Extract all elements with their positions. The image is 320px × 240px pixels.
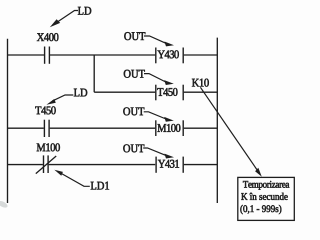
- wire rung1 middle: [50, 54, 155, 56]
- note box text line1: [243, 181, 289, 190]
- label LD rung1 text: [78, 7, 91, 15]
- wire rung1 left: [8, 54, 45, 56]
- branch wire vertical: [93, 55, 95, 92]
- label T450 text: [35, 106, 55, 114]
- label OUT rung1 arrow: [144, 36, 167, 44]
- wire rung3 right: [184, 127, 218, 129]
- label LD1 text: [91, 182, 109, 190]
- wire rung3 left: [8, 127, 44, 129]
- label LD rung3 text: [74, 89, 87, 97]
- label OUT rung4 text: [123, 144, 144, 152]
- right rail: [216, 38, 218, 203]
- contact M100 normally closed: [36, 155, 56, 173]
- coil M100 bars: [156, 120, 183, 136]
- label K10: [192, 79, 209, 87]
- wire rung2 right: [184, 91, 218, 93]
- coil Y431 label: [158, 160, 179, 168]
- contact X400: [45, 47, 50, 64]
- note box text line3: [240, 205, 281, 214]
- coil M100 label: [158, 124, 181, 132]
- note box: [238, 177, 294, 220]
- label OUT rung2 arrow: [144, 74, 166, 83]
- contact T450: [44, 120, 49, 137]
- label OUT rung2 text: [124, 70, 145, 78]
- coil T450 label: [157, 88, 177, 96]
- coil Y430 bars: [156, 48, 183, 64]
- label LD1 arrow: [60, 173, 90, 186]
- annotation arrow K10 to box: [200, 87, 257, 170]
- coil Y431 bars: [156, 157, 183, 173]
- coil Y430 label: [158, 50, 179, 58]
- left rail: [7, 39, 9, 203]
- wire rung1 right: [184, 54, 218, 56]
- note box text line2: [241, 193, 287, 200]
- wire rung3 middle: [50, 127, 156, 129]
- coil T450 bars: [156, 85, 183, 101]
- wire rung2: [94, 91, 155, 93]
- label LD rung3 arrow: [53, 95, 74, 101]
- label OUT rung1 text: [124, 32, 145, 40]
- label OUT rung4 arrow: [143, 148, 166, 156]
- wire rung4 left: [8, 164, 43, 166]
- label OUT rung3 text: [123, 107, 144, 115]
- label OUT rung3 arrow: [144, 112, 166, 119]
- wire rung4 middle: [49, 164, 156, 166]
- scan smudge bottom-left: [0, 200, 9, 209]
- label M100 text: [37, 143, 60, 151]
- wire rung4 right: [184, 164, 218, 166]
- label X400 text: [37, 33, 59, 41]
- label LD rung1 arrow: [55, 11, 78, 24]
